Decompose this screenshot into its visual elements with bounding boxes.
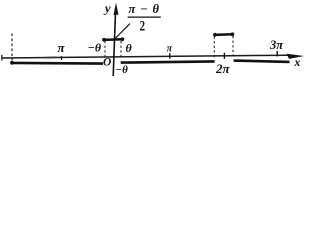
tick at pi (right) bbox=[169, 53, 171, 58]
dashed right side of 2pi pulse bbox=[232, 36, 234, 57]
dot left end of pulse bbox=[102, 38, 106, 42]
dashed line at x=-theta bbox=[104, 41, 106, 59]
y-axis bbox=[113, 9, 115, 76]
dot right end of pulse bbox=[121, 37, 125, 41]
dot at start of segment A bbox=[10, 61, 14, 65]
dashed left side of 2pi pulse bbox=[213, 37, 215, 60]
svg-text:2: 2 bbox=[140, 17, 145, 34]
pulse at 2pi: top segment bbox=[214, 33, 233, 36]
pulse segment near origin bbox=[104, 38, 124, 41]
tick at -pi bbox=[61, 56, 63, 60]
svg-text:3π: 3π bbox=[269, 38, 284, 52]
function segment C (y=-theta, right) bbox=[234, 61, 290, 62]
tick at left axis start bbox=[1, 55, 3, 61]
svg-text:π: π bbox=[167, 44, 173, 55]
fraction bar bbox=[128, 16, 161, 18]
x-axis bbox=[2, 55, 289, 58]
smudge on axis left of pi label bbox=[44, 56, 56, 58]
x-axis arrowhead bbox=[287, 54, 305, 59]
dashed vertical line at far left bbox=[11, 34, 13, 61]
y-axis arrowhead bbox=[114, 3, 119, 15]
leader line to fraction label bbox=[115, 24, 130, 39]
function segment B (y=-theta, middle) bbox=[121, 61, 215, 62]
svg-text:θ: θ bbox=[125, 41, 132, 55]
svg-text:2π: 2π bbox=[215, 61, 231, 76]
dot left end of 2pi pulse bbox=[213, 33, 217, 37]
dot right end of 2pi pulse bbox=[231, 32, 235, 36]
svg-text:−θ: −θ bbox=[115, 64, 128, 76]
svg-text:O: O bbox=[103, 56, 111, 68]
tick at 3pi bbox=[276, 51, 278, 56]
tick at 2pi bbox=[223, 53, 225, 59]
svg-text:π−θ: π−θ bbox=[129, 2, 160, 16]
svg-text:−θ: −θ bbox=[88, 41, 102, 55]
function segment A (y=-theta, left) bbox=[11, 62, 104, 65]
dashed line at x=theta bbox=[120, 41, 122, 57]
svg-text:π: π bbox=[57, 40, 65, 55]
svg-text:y: y bbox=[103, 0, 111, 15]
svg-text:x: x bbox=[293, 55, 300, 69]
